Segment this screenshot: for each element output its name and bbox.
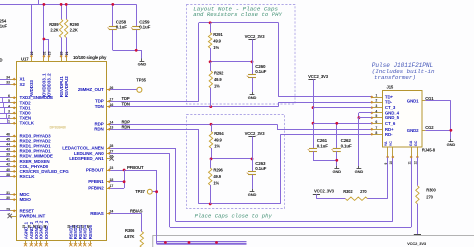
pin 28 LEDACTCOL_ANEN (right) — [107, 148, 111, 150]
testpoint TP37 — [152, 191, 156, 193]
wire net RXCLK — [0, 176, 11, 178]
svg-text:LEDSPEED_AN1: LEDSPEED_AN1 — [69, 156, 104, 161]
resistor R306 4.87K — [141, 213, 143, 231]
svg-text:GND_5: GND_5 — [385, 115, 400, 120]
pin 4 GND_4 (J15 left) — [372, 112, 383, 114]
resistor R290 2.2K — [66, 4, 68, 19]
svg-text:R289: R289 — [49, 22, 59, 27]
svg-text:AGND_1: AGND_1 — [23, 221, 28, 239]
svg-text:R296: R296 — [213, 168, 223, 173]
wire net RXDV_MIIMODE — [0, 156, 11, 158]
wire TDP net — [110, 101, 199, 103]
wire TDN jog up to TD- — [278, 102, 280, 106]
svg-text:37: 37 — [81, 225, 85, 229]
connector J15 Pulse J1011F21PNL — [383, 91, 423, 148]
wire VDD top rail — [0, 4, 137, 6]
svg-text:3: 3 — [375, 104, 377, 108]
svg-text:RDN: RDN — [94, 127, 103, 132]
svg-text:23: 23 — [48, 51, 52, 55]
pin 10 LED YC (J15 bottom) — [392, 147, 394, 157]
svg-text:TP35: TP35 — [136, 77, 146, 82]
svg-text:45: 45 — [86, 225, 90, 229]
wire VCC to CT_6 — [313, 108, 315, 124]
note box layout-note-2 (dashed) — [187, 115, 285, 209]
svg-text:47: 47 — [37, 225, 41, 229]
svg-text:0.1uF: 0.1uF — [317, 143, 328, 148]
svg-text:R306: R306 — [125, 228, 135, 233]
wire net RESET — [0, 210, 11, 212]
junction CT_6 tap — [312, 122, 315, 125]
wire stub to top edge — [38, 0, 40, 4]
pin 44 RXD1_PHYAD1 (left) — [11, 146, 17, 148]
svg-text:and Resistors close to PHY: and Resistors close to PHY — [193, 11, 282, 18]
resistor R289 2.2K — [61, 4, 63, 19]
wire R302 left — [316, 198, 345, 200]
pin 23 IOVDD33_2 (top) — [48, 56, 50, 61]
svg-text:15: 15 — [22, 225, 26, 229]
junction bus 1 — [164, 241, 167, 244]
svg-text:CT_3: CT_3 — [385, 105, 396, 110]
svg-text:TD-: TD- — [385, 100, 393, 105]
svg-text:1: 1 — [375, 94, 377, 98]
svg-text:1%: 1% — [214, 83, 220, 88]
svg-text:4: 4 — [375, 109, 377, 113]
pin 24 RBIAS (right) — [107, 213, 111, 215]
svg-text:Place Caps close to phy: Place Caps close to phy — [195, 212, 273, 219]
svg-text:R290: R290 — [70, 22, 80, 27]
junction bus 3 — [215, 241, 218, 244]
svg-text:RBIAS: RBIAS — [130, 208, 143, 213]
resistor R291 49.9 1% — [210, 23, 212, 33]
wire net COL_PHYAD0 — [0, 166, 11, 168]
pin 30 MDIO (left) — [11, 199, 17, 201]
power VCC2_3V3 for R302 — [313, 194, 320, 196]
wire cap commons C261-C262 — [313, 160, 337, 162]
wire net TXD1 — [0, 107, 11, 109]
capacitor C261 0.1uF — [313, 123, 315, 148]
wire bus jogs TXD — [2, 98, 4, 103]
pin 18 PFBIN1 (right) — [107, 181, 111, 183]
svg-text:RBIAS: RBIAS — [90, 211, 104, 216]
wire net RXER_MDXEN — [0, 161, 11, 163]
pin 32 IOVDD33_1 (top) — [43, 56, 45, 61]
junction R296 bottom on RDN — [209, 203, 212, 206]
svg-text:GND2: GND2 — [407, 128, 419, 133]
svg-text:4.87K: 4.87K — [124, 234, 134, 239]
svg-text:GND: GND — [355, 169, 364, 174]
svg-text:44: 44 — [6, 143, 10, 147]
power VCC2_3V3 box2 — [248, 136, 255, 138]
pin 45 RSVD5 (bottom) — [90, 241, 92, 245]
resistor R292 49.9 1% — [210, 62, 212, 71]
pin 1 TXCLK (left) — [11, 123, 17, 125]
svg-text:0.1uF: 0.1uF — [255, 166, 266, 171]
pin 23 PFBOUT (right) — [107, 170, 111, 172]
ic U17 DP83848 body — [17, 62, 107, 241]
pin 8 RD- (J15 left) — [372, 134, 383, 136]
pin 26 LEDSPEED_AN1 (right, no-connect) — [107, 158, 111, 160]
svg-text:8: 8 — [375, 131, 377, 135]
power VCC2_3V3 box1 — [248, 39, 255, 41]
pin 31 MDC (left) — [11, 194, 17, 196]
svg-text:7: 7 — [375, 126, 377, 130]
wire IOVDD33_1 drop — [43, 4, 45, 56]
svg-text:0.1uF: 0.1uF — [341, 143, 352, 148]
svg-text:RXCLK: RXCLK — [20, 174, 36, 179]
pin 35 AGND_2 (bottom) — [31, 241, 33, 245]
svg-text:GND: GND — [248, 95, 257, 100]
svg-text:GND: GND — [447, 142, 456, 147]
svg-text:GND: GND — [248, 192, 257, 197]
svg-text:RDN: RDN — [122, 124, 131, 129]
svg-text:0.1uF: 0.1uF — [0, 24, 7, 29]
wire CT_6 net — [313, 123, 372, 125]
wire 25MHZ_OUT to TP35 — [110, 89, 137, 91]
capacitor C259 0.1uF — [136, 4, 138, 26]
pin 22 AVDD33 (top) — [31, 56, 33, 61]
svg-text:35: 35 — [28, 225, 32, 229]
svg-text:0.1uF: 0.1uF — [255, 69, 266, 74]
wire net TXD0 — [0, 113, 11, 115]
wire net RXD3_PHYAD3 — [0, 136, 11, 138]
svg-text:1%: 1% — [213, 180, 219, 185]
pin 48 IOGND_3 (bottom) — [46, 241, 48, 245]
pin 21 RSVDPU2 (top) — [66, 56, 68, 61]
svg-text:MDIO: MDIO — [20, 197, 32, 202]
svg-text:2: 2 — [8, 115, 10, 119]
svg-text:R302: R302 — [343, 189, 353, 194]
wire LEDLINK net to LED2 cathode — [110, 153, 170, 155]
svg-text:3: 3 — [8, 109, 10, 113]
ground under C262 — [336, 166, 338, 169]
svg-text:10: 10 — [389, 161, 393, 165]
svg-text:U17: U17 — [21, 56, 29, 61]
wire net TXD2 — [0, 102, 11, 104]
pin 27 LEDLINK_AN0 (right) — [107, 153, 111, 155]
junction TP37 on PFB vertical — [155, 190, 158, 193]
resistor R300 270 — [417, 157, 419, 185]
svg-text:RSVDPU2: RSVDPU2 — [64, 76, 69, 98]
svg-text:49.9: 49.9 — [214, 77, 222, 82]
junction — [43, 38, 46, 41]
wire net MDC — [0, 194, 11, 196]
svg-text:LEDACTCOL_ANEN: LEDACTCOL_ANEN — [62, 145, 103, 150]
pin 43 RXD0_PHYAD1 (left) — [11, 151, 17, 153]
wire TDP raised loop (box1) — [198, 23, 200, 101]
pin 7 PWRDN_INT (left) — [11, 216, 17, 218]
ground under GND_4/5 — [358, 166, 360, 169]
pin 11 LED GA (J15 bottom) — [411, 147, 413, 157]
svg-text:GA: GA — [409, 140, 413, 146]
svg-text:32: 32 — [43, 51, 47, 55]
svg-text:1%: 1% — [213, 45, 219, 50]
wire VCC rail box1 — [210, 61, 252, 63]
pin 37 RSVD4 (bottom) — [84, 241, 86, 245]
svg-text:DP83848I: DP83848I — [50, 125, 66, 129]
pin GND2 (J15 right) — [422, 130, 426, 132]
pin 14 RDP (right) — [107, 124, 111, 126]
svg-text:X2: X2 — [20, 82, 26, 87]
svg-text:21: 21 — [65, 51, 69, 55]
svg-text:19: 19 — [67, 225, 71, 229]
pin 29 RESET (left) — [11, 210, 17, 212]
pin 4 TXD1 (left) — [11, 107, 17, 109]
svg-text:VCC2_3V3: VCC2_3V3 — [314, 189, 335, 194]
svg-text:10/100 single phy: 10/100 single phy — [73, 55, 107, 60]
pin 20 RSVDPU1 (top) — [61, 56, 63, 61]
svg-text:34: 34 — [6, 76, 10, 80]
pin 40 CRS/CRS_DV/LED_CFG (left) — [11, 171, 17, 173]
pin 39 RXDV_MIIMODE (left) — [11, 156, 17, 158]
svg-text:R291: R291 — [213, 32, 223, 37]
wire net RXD0_PHYAD1 — [0, 151, 11, 153]
svg-text:2: 2 — [375, 99, 377, 103]
wire R302 right to LED anode — [368, 198, 388, 200]
wire VCC rail box2 — [211, 158, 252, 160]
svg-text:0.1uF: 0.1uF — [139, 24, 150, 29]
wire net RXD2_PHYAD2 — [0, 141, 11, 143]
svg-text:25: 25 — [72, 225, 76, 229]
wire RDP jog down to RD+ — [277, 124, 279, 129]
svg-text:2.2K: 2.2K — [70, 28, 78, 33]
wire RDN net — [110, 129, 199, 131]
junction R292 bottom on TDN — [209, 105, 212, 108]
wire RDN low loop (box2) — [198, 129, 200, 204]
svg-text:GND: GND — [333, 169, 342, 174]
junction R291 top — [209, 21, 212, 24]
pin 2 TD- (J15 left) — [372, 102, 383, 104]
svg-text:TP37: TP37 — [135, 189, 145, 194]
wire GND_4 to GND_5 — [359, 112, 372, 114]
svg-text:PFBIN1: PFBIN1 — [88, 179, 104, 184]
resistor R296 49.9 1% — [210, 159, 212, 168]
svg-text:PFBOUT: PFBOUT — [127, 165, 144, 170]
junction CT_3 tap — [312, 106, 315, 109]
svg-text:46: 46 — [6, 132, 10, 136]
pin 45 RXD2_PHYAD2 (left) — [11, 141, 17, 143]
svg-text:20: 20 — [60, 51, 64, 55]
wire net TXD3_SNIMODE — [0, 97, 11, 99]
capacitor C262 0.1uF — [336, 123, 338, 148]
svg-text:2.2K: 2.2K — [50, 28, 58, 33]
svg-text:45: 45 — [6, 138, 10, 142]
wire TDN net — [110, 106, 278, 108]
power VCC2_3V3 bottom — [414, 234, 421, 236]
svg-text:27: 27 — [77, 225, 81, 229]
wire PFBIN vertical — [124, 170, 126, 188]
svg-text:transformer): transformer) — [374, 74, 416, 81]
pin 6 TXD3_SNIMODE (left) — [11, 97, 17, 99]
title block border (bottom right) — [153, 236, 474, 247]
svg-text:36: 36 — [32, 225, 36, 229]
note box layout-note-1 (dashed) — [187, 5, 296, 105]
svg-text:RD-: RD- — [385, 132, 393, 137]
testpoint TP35 — [137, 87, 142, 92]
svg-text:25MHZ_OUT: 25MHZ_OUT — [78, 87, 104, 92]
pin 17 PFBIN2 (right) — [107, 188, 111, 190]
ground under C258/C259 — [141, 59, 143, 62]
pin 1 TD+ (J15 left) — [372, 97, 383, 99]
svg-text:0.1uF: 0.1uF — [116, 24, 127, 29]
wire net MDIO — [0, 199, 11, 201]
svg-text:CG2: CG2 — [425, 125, 434, 130]
svg-text:CG1: CG1 — [425, 96, 434, 101]
pin 33 X2 (left) — [11, 84, 17, 86]
pin 42 COL_PHYAD0 (left) — [11, 166, 17, 168]
pin 6 CT_6 (J15 left) — [372, 123, 383, 125]
pin 41 RXER_MDXEN (left) — [11, 161, 17, 163]
pin 12 LED GC (J15 bottom) — [417, 147, 419, 157]
pin 15 AGND_1 (bottom) — [25, 241, 27, 245]
pin 5 TXD2 (left) — [11, 102, 17, 104]
wire PFBOUT net — [110, 170, 156, 172]
pin 17 TDP (right) — [107, 101, 111, 103]
svg-text:GC: GC — [414, 140, 418, 146]
wire GND45 drop — [358, 118, 360, 166]
pin 38 RXCLK (left) — [11, 176, 17, 178]
svg-text:22: 22 — [30, 51, 34, 55]
svg-text:PFBOUT: PFBOUT — [86, 167, 104, 172]
wire cap commons — [113, 50, 142, 52]
wire GND_5 net — [359, 117, 372, 119]
svg-text:49.9: 49.9 — [213, 39, 221, 44]
wire LEDACTCOL net to LED1 cathode — [110, 148, 176, 150]
svg-text:270: 270 — [426, 194, 433, 199]
svg-text:6: 6 — [375, 120, 377, 124]
no-connect X on PWRDN_INT — [8, 214, 12, 218]
wire RBIAS net — [110, 213, 142, 215]
svg-text:PWRDN_INT: PWRDN_INT — [20, 214, 46, 219]
svg-text:PFBIN2: PFBIN2 — [88, 185, 104, 190]
junction GND_5 — [358, 116, 361, 119]
pin 3 TXD0 (left) — [11, 113, 17, 115]
pin 9 LED YA (J15 bottom) — [387, 147, 389, 157]
svg-text:TXCLK: TXCLK — [20, 121, 35, 126]
power VCC2_3V3 CT bias — [308, 79, 315, 81]
wire RDP net — [110, 124, 277, 126]
svg-text:CT_6: CT_6 — [385, 121, 396, 126]
wire CT_3 net — [313, 107, 372, 109]
pin 7 RD+ (J15 left) — [372, 129, 383, 131]
wire PFBIN1 link — [110, 181, 124, 183]
svg-text:R292: R292 — [214, 71, 224, 76]
svg-text:270: 270 — [360, 189, 367, 194]
pin 5 GND_5 (J15 left) — [372, 117, 383, 119]
svg-text:TDP: TDP — [122, 96, 130, 101]
wire net X2 — [0, 84, 11, 86]
svg-text:R294: R294 — [214, 131, 224, 136]
wire IOVDD33_2 branch — [44, 39, 49, 41]
wire CG1 — [425, 100, 451, 102]
wire net RXD1_PHYAD1 — [0, 146, 11, 148]
pin 13 RDN (right) — [107, 129, 111, 131]
junction bus 2 — [188, 241, 191, 244]
wire CG vertical — [450, 101, 452, 139]
pin 47 IOGND_2 (bottom) — [40, 241, 42, 245]
pin 25 RSVD2 (bottom) — [75, 241, 77, 245]
pin GND1 (J15 right) — [422, 100, 426, 102]
pin 46 RXD3_PHYAD3 (left) — [11, 136, 17, 138]
pin 36 IOGND_1 (bottom) — [36, 241, 38, 245]
junction R294 top on RDP — [210, 123, 213, 126]
pin 16 TDN (right) — [107, 106, 111, 108]
svg-text:IOVDD33_2: IOVDD33_2 — [47, 73, 52, 97]
resistor R294 49.9 1% — [211, 124, 213, 131]
ground under C263 — [252, 189, 254, 192]
ground under C260 — [252, 92, 254, 95]
svg-text:TDN: TDN — [122, 102, 130, 107]
svg-text:GND: GND — [138, 62, 147, 67]
wire CG2 — [425, 130, 451, 132]
svg-text:VCC2_3V3: VCC2_3V3 — [308, 74, 329, 79]
svg-text:TDN: TDN — [95, 104, 104, 109]
svg-text:J15: J15 — [387, 85, 394, 90]
svg-text:49.9: 49.9 — [213, 174, 221, 179]
wire net TXCLK — [0, 123, 11, 125]
svg-text:1%: 1% — [214, 144, 220, 149]
svg-text:IOGND_3: IOGND_3 — [44, 220, 49, 239]
capacitor C260 0.1uF — [248, 74, 256, 76]
pin 26 25MHZ_OUT (right) — [107, 89, 111, 91]
svg-text:GND1: GND1 — [407, 98, 419, 103]
junction PFBIN tap — [123, 169, 126, 172]
svg-text:VCC2_3V3: VCC2_3V3 — [407, 241, 427, 246]
svg-text:49.9: 49.9 — [214, 137, 222, 142]
svg-text:5: 5 — [375, 114, 377, 118]
svg-text:R300: R300 — [426, 188, 436, 193]
capacitor C258 0.1uF — [112, 4, 114, 26]
wire net CRS/CRS_DV/LED_CFG — [0, 171, 11, 173]
pin 34 X1 (left) — [11, 79, 17, 81]
junction — [43, 3, 46, 6]
wire PFBIN2 link — [110, 188, 124, 190]
svg-text:RJ45-8: RJ45-8 — [422, 148, 436, 153]
wire net X1 — [0, 79, 11, 81]
svg-text:48: 48 — [43, 225, 47, 229]
ground CG — [450, 139, 452, 142]
svg-text:VCC2_3V3: VCC2_3V3 — [245, 34, 266, 39]
wire PFB bottom bus — [157, 241, 247, 243]
svg-text:11: 11 — [408, 161, 412, 164]
capacitor C263 0.1uF — [248, 171, 256, 173]
pin 3 CT_3 (J15 left) — [372, 107, 383, 109]
junction CG2 — [450, 129, 453, 132]
pin 2 TXEN (left) — [11, 118, 17, 120]
svg-text:YA: YA — [384, 141, 388, 146]
svg-text:YC: YC — [389, 141, 393, 146]
wire AVDD33 drop — [31, 4, 33, 56]
resistor R302 270 — [345, 197, 367, 200]
svg-text:IOGND_2: IOGND_2 — [38, 220, 43, 239]
svg-text:TDP: TDP — [95, 99, 104, 104]
pin 27 RSVD3 (bottom) — [80, 241, 82, 245]
pin 19 RSVD1 (bottom) — [70, 241, 72, 245]
svg-text:VCC2_3V3: VCC2_3V3 — [245, 131, 266, 136]
svg-text:D: D — [0, 58, 3, 63]
wire net TXEN — [0, 118, 11, 120]
